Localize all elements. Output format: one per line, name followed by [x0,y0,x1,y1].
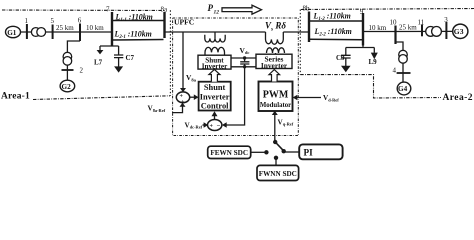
wire transformer to G4 [402,63,404,82]
P12 power flow hollow arrow [222,5,262,14]
line L2-1 [112,39,164,42]
transformer T3 [426,27,436,37]
svg-text:C9: C9 [336,54,345,62]
svg-text:FWNN SDC: FWNN SDC [259,170,297,178]
hollow arrow PWM to series inverter [269,70,280,82]
shunt transformer secondary [205,47,225,55]
L7 C7 hanger wire [100,40,119,50]
C9 L9 hanger wire [346,46,375,56]
ground arrow under C7 [114,66,123,72]
wire bus6 to G2 transformer [67,41,80,52]
svg-text:8b: 8b [303,5,311,13]
wire bus10 to G4 transformer [396,42,404,50]
svg-text:10 km: 10 km [86,24,104,32]
bus 11 [421,25,423,37]
svg-text:7: 7 [106,6,110,14]
bus 9 bar [362,13,364,46]
V8a sense line [182,32,184,89]
svg-text:+: + [181,100,185,106]
DC link capacitor Vdc [240,58,249,67]
transformer T1 [31,28,40,37]
svg-text:4: 4 [393,66,397,74]
svg-text:C7: C7 [126,54,135,62]
Area-1 box bottom edge [33,96,170,100]
UPFC dashed box [173,18,299,136]
svg-text:L1-2 :110km: L1-2 :110km [313,12,351,22]
Vdc-Ref arrow into S2 [203,124,205,126]
summing junction S2 [208,120,222,131]
series inverter box [256,54,292,68]
svg-text:G4: G4 [398,85,408,93]
wire bus9 to bus10 [363,31,396,33]
wire series transformer to bus 8b [283,31,309,33]
wire FEWN SDC to contact [251,151,265,153]
Area-1 box top edge [2,9,164,12]
FEWN contact dot [264,150,268,154]
svg-text:L7: L7 [94,59,103,67]
generator G3 [453,24,468,38]
svg-text:10: 10 [390,18,398,26]
Vdc feedback wire [226,67,245,125]
svg-text:Area-2: Area-2 [443,93,474,103]
bus 1 [26,24,28,39]
junction dots on DC link [243,56,246,59]
svg-text:FEWN SDC: FEWN SDC [210,149,248,157]
svg-text:Inverter: Inverter [202,63,228,71]
load L9 arrow [373,48,375,53]
wire FWNN SDC to contact [275,159,277,165]
summing junction S1 [176,92,189,103]
svg-text:G2: G2 [62,83,72,91]
svg-text:8a: 8a [161,6,169,14]
bus 4 tick [397,72,411,74]
svg-text:G1: G1 [7,29,17,37]
svg-text:25 km: 25 km [56,24,74,32]
FEWN SDC box [208,146,251,158]
ground arrow under C9 [341,66,351,72]
switch common dot [273,140,277,144]
Vd-Ref arrow into PWM [297,97,322,99]
svg-text:Shunt: Shunt [204,83,226,92]
svg-text:+: + [210,124,214,130]
wire transformer to G2 [66,65,68,80]
wire bus10 to G3 [396,30,453,32]
shunt transformer primary [205,35,225,42]
transformer T2 (to G2) [63,52,72,61]
bus 8a bar [163,12,165,38]
svg-text:−: − [217,123,221,130]
svg-text:12: 12 [214,10,220,16]
svg-text:6: 6 [78,17,82,25]
capacitor C9 [341,55,351,66]
shunt transformer tap [214,32,216,38]
bus 5 [52,25,54,40]
svg-text:3: 3 [444,16,448,24]
svg-text:Inverter: Inverter [261,61,288,70]
svg-text:5: 5 [51,17,55,25]
wire blade to PI [285,151,299,153]
Area-2 box top edge [301,9,474,10]
bus 8b bar [308,12,310,43]
svg-text:11: 11 [418,18,425,26]
svg-text:10 km: 10 km [369,24,387,32]
switch blade dot [282,149,286,153]
series transformer primary (in line) [266,32,284,44]
line L1-2 [309,20,363,22]
generator G4 [397,82,411,95]
shunt inverter control box [199,82,231,111]
S1 output arrow to control [190,96,195,98]
shunt inverter box [198,55,231,69]
bus 2 tick [62,69,74,71]
S2 output arrow up to control box [214,116,216,120]
svg-text:1: 1 [25,17,29,25]
svg-text:Area-1: Area-1 [1,91,30,101]
svg-text:9: 9 [360,8,364,16]
svg-text:L2-1 :110km: L2-1 :110km [114,29,152,39]
line L1-1 [112,20,164,22]
svg-text:G3: G3 [454,27,464,36]
series transformer secondary [267,48,285,54]
svg-text:Modulator: Modulator [260,102,291,109]
FWNN SDC box [257,165,299,180]
Vq-Ref line switch to PWM [274,115,276,143]
svg-text:2: 2 [80,66,84,74]
DC link wires [231,58,256,67]
bus 6 [79,24,81,42]
bus 10 bar [394,26,396,45]
Area-2 left edge [299,10,301,75]
svg-text:25 km: 25 km [399,24,417,32]
line L2-2 [309,38,363,40]
V8a-Ref input elbow [172,106,183,113]
svg-text:PWM: PWM [263,90,289,101]
switch blade [275,142,283,151]
capacitor C7 [114,46,123,67]
load L7 arrow [97,50,104,54]
wire bus8a to series transformer [166,31,266,33]
wire G1 to bus 7 [21,31,112,33]
bus 3 [445,22,447,39]
PWM modulator box [259,82,293,112]
svg-text:L1-1 :110km: L1-1 :110km [115,13,153,23]
svg-text:Inverter: Inverter [200,92,230,101]
svg-text:Control: Control [201,102,229,111]
hollow arrow control to shunt inverter [209,69,220,81]
generator G1 [6,26,21,37]
svg-text:UPFC: UPFC [174,18,194,27]
svg-text:L9: L9 [369,58,378,66]
Area-1 right edge [169,10,171,96]
generator G2 [60,80,75,92]
bus 7 bar [111,12,113,46]
svg-text:L2-2 :110km: L2-2 :110km [314,27,352,37]
FWNN contact dot [274,156,278,160]
transformer T4 (to G4) [399,50,408,59]
svg-text:PI: PI [304,147,314,157]
Area-2 box notch edge [300,75,441,98]
PI box [299,144,342,159]
